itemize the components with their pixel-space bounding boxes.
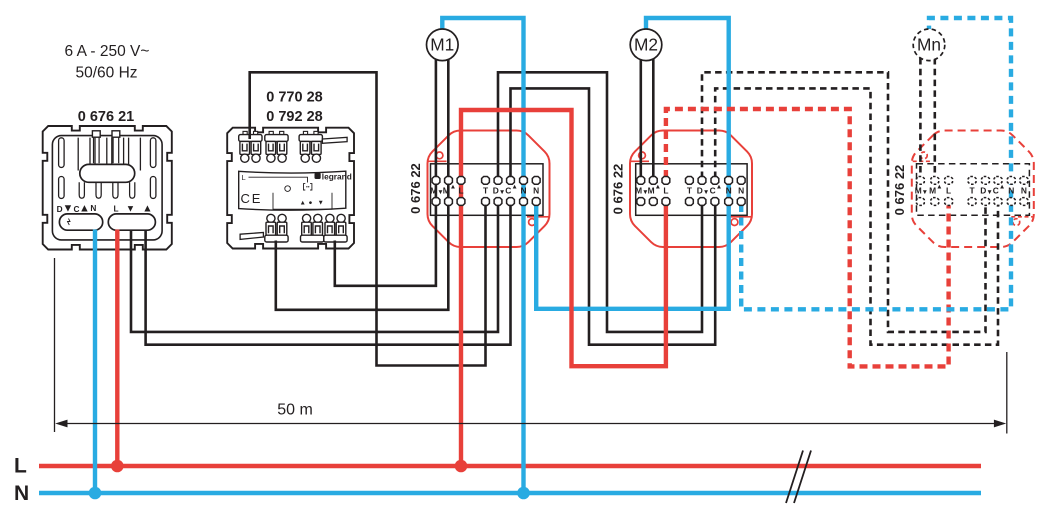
svg-text:T: T	[687, 185, 693, 195]
svg-text:▲: ▲	[142, 203, 152, 215]
svg-text:0 676 21: 0 676 21	[78, 109, 134, 125]
svg-text:legrand: legrand	[322, 172, 352, 182]
svg-text:M2: M2	[634, 35, 658, 55]
bus break marks	[786, 451, 811, 504]
junction dot SW1 N on bus	[89, 487, 102, 500]
U0 label band	[239, 171, 346, 210]
wire: C-command daisy chain U2 to U3 (dashed black)	[715, 88, 998, 344]
flush-mounting box (red octagon) of shutter switch U2 (0 676 22 #2)	[630, 131, 752, 248]
svg-text:M1: M1	[430, 35, 454, 55]
svg-text:N: N	[520, 185, 526, 195]
U3 terminal pins (two rows, dashed)	[917, 177, 1028, 206]
motor Mn (dashed)	[913, 29, 945, 61]
wire: motor M2 up-lead (black)	[652, 58, 655, 182]
wire: motor Mn down-lead (dashed black)	[919, 58, 922, 182]
N bus line (blue)	[39, 491, 981, 495]
flush-mounting box (red octagon) of shutter switch U1 (0 676 22 #1)	[428, 131, 550, 248]
wire: D-command daisy chain U2 to U3 (dashed black)	[702, 72, 986, 332]
U3 terminal labels	[915, 183, 1027, 196]
svg-text:▼: ▼	[318, 199, 324, 206]
terminal strip body of U2	[636, 164, 747, 216]
svg-text:0 792 28: 0 792 28	[266, 109, 322, 125]
wire: motor M1 down-lead (black) from M1 to U1 M-down, looped via U0 bottom clamp	[335, 58, 436, 286]
svg-text:Mn: Mn	[917, 35, 941, 55]
SW1 auto/manual icon	[68, 219, 71, 226]
svg-text:0 676 22: 0 676 22	[408, 163, 423, 214]
svg-text:0 676 22: 0 676 22	[892, 165, 907, 216]
U1 terminal pins (two rows)	[432, 177, 540, 206]
wire: M2 neutral loop through U2 terminal N chained to U1 second N (blue)	[536, 18, 729, 309]
svg-text:N: N	[1021, 185, 1027, 195]
wire: SW1 line to L bus (red)	[115, 230, 119, 465]
junction dot SW1 L on bus	[111, 460, 124, 473]
svg-text:N: N	[726, 185, 732, 195]
master switch SW1 body	[52, 131, 162, 240]
wire: D-command daisy chain U1 to U2 (black)	[498, 72, 702, 332]
U0 top terminal clamps	[239, 131, 323, 162]
SW1 terminal labels D C N L down up	[57, 203, 153, 215]
svg-text:N: N	[1008, 185, 1014, 195]
svg-text:▼: ▼	[126, 204, 135, 215]
svg-text:6 A - 250 V~: 6 A - 250 V~	[65, 43, 150, 60]
svg-text:50 m: 50 m	[277, 402, 313, 419]
junction dot U1 N riser on bus	[517, 487, 530, 500]
motor M1	[427, 29, 459, 61]
U0 bottom terminal clamps	[265, 214, 347, 242]
svg-text:T: T	[483, 185, 489, 195]
svg-text:▲: ▲	[300, 199, 306, 206]
flush-mounting box (dashed red octagon) of shutter switch Un (0 676 22 #n)	[912, 131, 1034, 248]
svg-text:T: T	[970, 185, 976, 195]
svg-text:L: L	[14, 455, 27, 478]
wire: C-command daisy chain U1 to U2 (black)	[511, 88, 716, 344]
U1 terminal labels	[430, 183, 539, 196]
svg-text:▼: ▼	[62, 203, 73, 215]
terminal strip body of U1	[431, 164, 544, 216]
master switch SW1 (0 676 21) mounting frame	[43, 126, 172, 250]
U0 legrand logo	[315, 172, 352, 182]
svg-text:L: L	[946, 185, 951, 195]
wire: motor Mn up-lead (dashed black)	[933, 58, 936, 182]
wire: L chain U2 to U3 (dashed red)	[666, 109, 949, 366]
svg-text:N: N	[14, 482, 29, 505]
wire: M1 neutral loop into U1 terminal N (blue) down to N bus	[442, 18, 523, 491]
wire: SW1 down-command to U1 terminal D (black)	[131, 203, 498, 332]
svg-text:CE: CE	[241, 191, 263, 206]
svg-text:L: L	[458, 185, 463, 195]
motor M2	[630, 29, 662, 61]
svg-text:▲: ▲	[79, 203, 90, 215]
dimension 50 m	[55, 258, 1007, 434]
wire: motor M1 up-lead (black) from M1 to U1 M-up, looped via U0 bottom clamp	[276, 58, 449, 310]
junction dot U1 L riser on bus	[455, 460, 468, 473]
svg-text:N: N	[90, 203, 96, 213]
wire: L bus riser through U1 terminal L chained to U2 L (red)	[461, 110, 666, 464]
U0 bottom left slot	[240, 233, 263, 240]
wire: motor M2 down-lead (black)	[639, 58, 642, 182]
wire: SW1 neutral to N bus (blue)	[93, 230, 97, 492]
svg-text:L: L	[242, 173, 246, 182]
svg-text:N: N	[738, 185, 744, 195]
U2 terminal labels	[635, 183, 744, 196]
control unit U0 (0 770 28 / 0 792 28) mounting frame	[227, 128, 354, 249]
svg-text:0 676 22: 0 676 22	[611, 164, 626, 215]
svg-text:50/60 Hz: 50/60 Hz	[75, 65, 137, 82]
svg-text:L: L	[114, 203, 119, 213]
svg-text:L: L	[663, 185, 668, 195]
U0 band details: L terminal mark, link line, connector icon	[249, 177, 333, 209]
U0 top right slot	[322, 137, 347, 143]
wire: N chain U2 second N through U3 N looped to motor Mn (dashed blue)	[741, 18, 1011, 309]
U2 terminal pins (two rows)	[637, 177, 745, 206]
wire: SW1 up-command to U1 terminal C (black)	[146, 203, 511, 345]
wire: U0 control lead to U1 terminal T (black)	[250, 72, 486, 365]
svg-text:0 770 28: 0 770 28	[266, 90, 322, 106]
svg-text:●: ●	[309, 199, 313, 206]
L bus line (red)	[39, 464, 981, 468]
terminal strip body of U3 (dashed)	[917, 164, 1030, 216]
svg-text:N: N	[533, 185, 539, 195]
